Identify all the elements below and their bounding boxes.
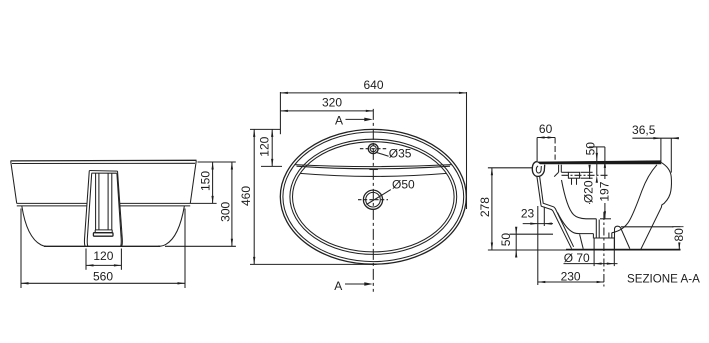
channel vertical 3 (107, 173, 109, 230)
svg-text:300: 300 (219, 201, 233, 221)
under-deck diagonal (554, 172, 558, 176)
ext 23 right (543, 207, 545, 226)
ext line 560 right (184, 209, 186, 289)
drain flange right wall and O70 ext (613, 237, 615, 266)
channel foot base plate (93, 233, 113, 237)
svg-text:Ø 70: Ø 70 (564, 251, 590, 265)
overflow hole rect O20 (568, 172, 579, 178)
dimension 278 line (491, 168, 493, 250)
drain outer circle (363, 190, 382, 209)
dimension 197 line (604, 147, 606, 219)
svg-text:278: 278 (478, 197, 492, 217)
back wall outer (537, 176, 572, 248)
right foot tab (615, 226, 630, 249)
ext line 120 bottom (261, 165, 282, 167)
dimension 80 line (678, 227, 680, 250)
ledge line 2 right part (120, 205, 190, 207)
svg-text:150: 150 (199, 171, 213, 191)
drain dashed axis (358, 199, 388, 201)
ground line (566, 249, 681, 251)
section arrow A top (346, 118, 367, 120)
outer rim ellipse 1 (280, 129, 466, 264)
ext line bottom right (165, 245, 236, 247)
channel vertical 1 (95, 173, 97, 230)
lower body bottom edge (44, 245, 160, 247)
svg-text:36,5: 36,5 (632, 123, 656, 137)
dimension 50 bottom-left line (515, 228, 517, 257)
channel foot upper bar (95, 230, 112, 233)
ext 230 left (537, 206, 539, 285)
dimension 120 line (86, 264, 121, 266)
ext line top right (198, 161, 236, 163)
inner bowl right surface (612, 165, 657, 233)
basin top edge line 2 (12, 162, 195, 164)
drain pipe inner wall left (598, 220, 600, 239)
ext line 460 bottom (250, 263, 377, 265)
ledge line 2 left part (17, 205, 87, 207)
ext line 640 left (279, 92, 281, 134)
ext line 640 right (466, 92, 468, 209)
lower body right edge (158, 206, 184, 246)
column outer right slant (118, 171, 123, 246)
dimension 50 top line (596, 147, 598, 175)
drain pipe right wall (611, 233, 613, 238)
bowl front edge curve (300, 173, 447, 176)
dimension 320 line (280, 110, 373, 112)
svg-text:A: A (335, 113, 343, 127)
leader line O35 (377, 153, 389, 157)
section arrow A bottom (345, 283, 366, 285)
leader line O50 (367, 190, 391, 205)
drain flange shoulder (594, 237, 614, 239)
under-deck vertical 2 (560, 165, 562, 173)
ext line 120 left (85, 249, 87, 270)
dimension 300 line (231, 162, 233, 246)
dimension O20 line (589, 166, 591, 204)
svg-text:Ø50: Ø50 (392, 177, 415, 191)
foot ledge line (621, 226, 680, 228)
tap hole outer circle (368, 144, 378, 154)
ext 197 bottom (600, 218, 611, 220)
ext O20 top (581, 171, 593, 173)
svg-text:80: 80 (672, 228, 686, 242)
svg-text:Ø20: Ø20 (581, 180, 595, 203)
channel vertical 4 (111, 173, 113, 230)
ext 36,5 left (660, 138, 662, 162)
ext 278 top (488, 167, 532, 169)
centerline cross tick at deck (369, 169, 378, 171)
svg-text:560: 560 (93, 269, 113, 283)
ext O20 bottom (581, 177, 593, 179)
ext 60 right (554, 138, 556, 160)
column inner left slant (87, 173, 91, 246)
50 top tail tick (589, 146, 605, 148)
tap hole inner circle (370, 146, 376, 152)
svg-text:Ø35: Ø35 (389, 147, 412, 161)
vertical centerline A-A (372, 109, 374, 292)
column top face line 2 (92, 172, 117, 174)
inner bowl left surface (562, 180, 597, 219)
drain flange left wall and O70 ext (593, 238, 595, 266)
ext 80 top (672, 226, 684, 228)
svg-text:460: 460 (239, 186, 253, 206)
bowl bottom step (592, 234, 594, 239)
dimension 36,5 line (632, 137, 679, 139)
column outer left slant (84, 171, 89, 247)
ext line ledge right (191, 202, 217, 204)
ledge line 1 right part (120, 202, 191, 204)
dimension text 197 rotated (600, 179, 610, 203)
ext 60 left (536, 138, 538, 163)
inner rim ellipse 1 (290, 139, 457, 254)
basin right upper edge (190, 161, 196, 204)
rim bead outer (532, 162, 544, 177)
rim bead inner (536, 166, 541, 173)
under-deck shelf line (561, 171, 568, 173)
dimension 60 line (537, 137, 555, 139)
channel vertical 2 (98, 173, 100, 230)
overflow channel vertical 2 (576, 178, 578, 185)
dimension text O20 rotated (583, 179, 593, 203)
ext line 560 left (20, 209, 22, 289)
svg-text:50: 50 (583, 142, 597, 156)
svg-text:23: 23 (521, 207, 535, 221)
ext line 120 right (120, 249, 122, 270)
ext line 120/460 top (250, 128, 280, 130)
svg-text:120: 120 (93, 249, 113, 263)
basin left upper edge (11, 161, 17, 203)
column inner right slant (117, 173, 121, 246)
svg-text:50: 50 (499, 233, 513, 247)
svg-text:SEZIONE A-A: SEZIONE A-A (627, 273, 700, 286)
svg-text:60: 60 (539, 122, 553, 136)
svg-text:230: 230 (561, 269, 581, 283)
ledge line 1 left part (17, 202, 88, 204)
svg-text:A: A (334, 279, 342, 293)
deck front edge line 1 (295, 165, 452, 167)
overflow hole dashed axis (562, 174, 610, 176)
dimension O70 line (564, 263, 618, 265)
outer right wall (641, 162, 672, 249)
lower body left edge (22, 206, 46, 246)
ext 36,5 right (670, 138, 672, 172)
dimension 150 line (212, 162, 214, 203)
svg-text:120: 120 (258, 136, 272, 156)
drain inner circle (366, 192, 381, 207)
svg-text:197: 197 (598, 181, 612, 201)
ext 278/50 bottom (488, 249, 566, 251)
dimension 120 line (271, 129, 273, 166)
drain pipe inner wall right (608, 233, 610, 239)
dimension 560 line (21, 282, 185, 284)
dimension 230 line (538, 281, 604, 283)
drain pipe left wall (595, 219, 597, 238)
dimension 640 line (280, 92, 466, 94)
dimension 460 line (253, 129, 255, 264)
dimension text 80 rotated (674, 227, 685, 242)
inner rim ellipse 2 (293, 142, 455, 252)
ext 50 bottom-left top (510, 233, 554, 235)
outer rim ellipse 2 (283, 132, 464, 262)
svg-text:320: 320 (322, 96, 342, 110)
svg-text:640: 640 (363, 78, 383, 92)
bowl outer bottom (558, 213, 594, 234)
dimension 23 line (523, 223, 553, 225)
basin top edge line 1 (11, 159, 197, 162)
overflow channel vertical 1 (571, 178, 573, 185)
deck front edge line 2 (297, 166, 451, 169)
tap hole dashed axis (360, 148, 387, 150)
under-deck vertical 1 (558, 165, 560, 173)
drain centerline (603, 212, 605, 287)
column top face line 1 (89, 170, 117, 173)
back wall inner (540, 176, 574, 247)
deck cut band (solid) (537, 160, 662, 164)
left foot diagonal (580, 234, 584, 249)
